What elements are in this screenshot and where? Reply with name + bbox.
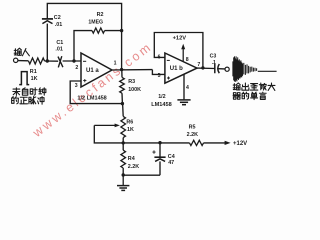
capacitor C3 [215,64,220,73]
svg-text:4: 4 [186,85,189,91]
wire R6 bottom [122,138,124,143]
potentiometer R6 [121,116,126,137]
svg-text:R1: R1 [30,69,37,75]
svg-text:C1: C1 [56,40,63,46]
svg-text:1MEG: 1MEG [88,20,103,26]
svg-text:R2: R2 [97,12,104,18]
resistor R5 [190,140,204,145]
wire C4 bottom [159,161,161,175]
+12V supply arrow U1b [182,47,184,61]
capacitor C4 (electrolytic) [154,156,165,158]
wire U1b pin4 [183,74,185,99]
node: U1a output junction [120,68,123,71]
label R3 100K [128,79,141,93]
label 输入 (input) [14,48,29,56]
label R1 1K [30,69,38,82]
svg-text:R4: R4 [128,156,135,162]
op-amp U1a [81,53,112,87]
resistor R2 [92,28,105,33]
svg-text:.1: .1 [212,60,216,66]
label 输出至放大 (output to amplifier) [233,83,275,90]
wire C3 to output terminal [218,68,225,70]
wire U1b feedback loop [154,33,203,68]
output terminal [225,67,229,71]
capacitor C2 [42,18,53,20]
input terminal [14,58,18,62]
svg-text:U1 b: U1 b [170,66,183,72]
svg-text:1K: 1K [127,127,134,133]
+12V arrow [225,141,231,145]
label 的正脉冲 (positive pulse) [12,97,44,105]
svg-text:R6: R6 [126,119,133,125]
label C4 47 [168,154,175,166]
label 器的单音 (single tone) [233,92,266,99]
svg-text:1/2: 1/2 [158,94,166,100]
wire C2 top feedback [47,3,121,30]
op-amp U1b [165,53,197,83]
svg-text:C2: C2 [54,15,61,21]
node: ground junction [122,173,125,176]
label 来自时钟 (from clock) [13,88,46,96]
output tone-burst waveform [233,56,257,82]
pulse waveform symbol (clock pulse) [19,72,29,85]
capacitor C1 [58,56,63,67]
svg-text:.01: .01 [55,46,63,52]
wire U1a pin3 bias [70,81,122,104]
wire U1a output [112,69,152,71]
node: bias divider junction [121,102,124,105]
label R6 1K [126,119,134,133]
svg-text:R3: R3 [128,79,135,85]
wire R4 bottom [122,168,124,175]
wire node to R6 [122,104,125,117]
R6 wiper arrow [94,124,116,126]
label C3 .1 [210,53,217,66]
label C2 .01 [54,15,63,28]
label R4 2.2K [128,156,139,170]
label C1 .01 [55,40,63,53]
resistor R1 [29,58,45,64]
wire R1 to C1 [45,60,59,62]
wire R5 to arrow [204,142,226,144]
ground (U1b pin4) [183,98,185,101]
wire input to R1 [18,60,29,62]
ground (main) [122,175,124,185]
wire wiper loop [94,125,123,142]
wire rail to C4 [159,143,161,157]
svg-text:8: 8 [186,57,189,63]
svg-text:1/2 LM1458: 1/2 LM1458 [77,95,106,101]
wire to U1b pin5 with jog [152,70,165,75]
node: junction R2 branch [72,59,75,62]
wire R2 to feedback column [105,30,122,32]
svg-text:C3: C3 [210,53,217,59]
node: C4 tap [158,141,161,144]
resistor R4 [121,150,126,168]
svg-text:LM1458: LM1458 [151,102,172,108]
label R5 2.2K [187,124,198,138]
wire bottom R4 to C4 [123,174,160,176]
svg-text:1K: 1K [31,76,38,82]
wire node to C2 [46,24,48,61]
node: feedback junction [120,29,123,32]
svg-text:R5: R5 [189,124,196,130]
svg-text:+12V: +12V [233,141,247,147]
label R2 1MEG [88,12,103,26]
svg-text:U1 a: U1 a [86,68,99,74]
svg-text:47: 47 [168,160,174,166]
svg-text:100K: 100K [128,87,141,93]
wire output node to R3 [121,70,123,78]
svg-text:7: 7 [197,62,200,68]
svg-text:5: 5 [158,73,161,79]
node: U1b output junction [201,66,204,69]
node: rail junction R6/R4 [122,141,125,144]
svg-text:2.2K: 2.2K [128,164,139,170]
resistor R3 [120,77,125,93]
svg-text:2: 2 [75,65,78,71]
svg-text:1: 1 [114,61,117,67]
wire C1 to U1a pin2 [63,60,81,62]
wire U1b output to C3 [197,67,215,69]
wire R3 bottom [121,93,123,103]
svg-text:2.2K: 2.2K [187,132,198,138]
wire R2 left branch [74,31,92,61]
wire feedback column down [121,31,123,70]
svg-text:.01: .01 [55,22,63,28]
svg-text:3: 3 [75,83,78,89]
wire rail to R4 [122,143,124,150]
wire bias rail to +12V [123,142,189,144]
node: junction input/C2 branch [46,59,49,62]
svg-text:+12V: +12V [173,36,187,42]
